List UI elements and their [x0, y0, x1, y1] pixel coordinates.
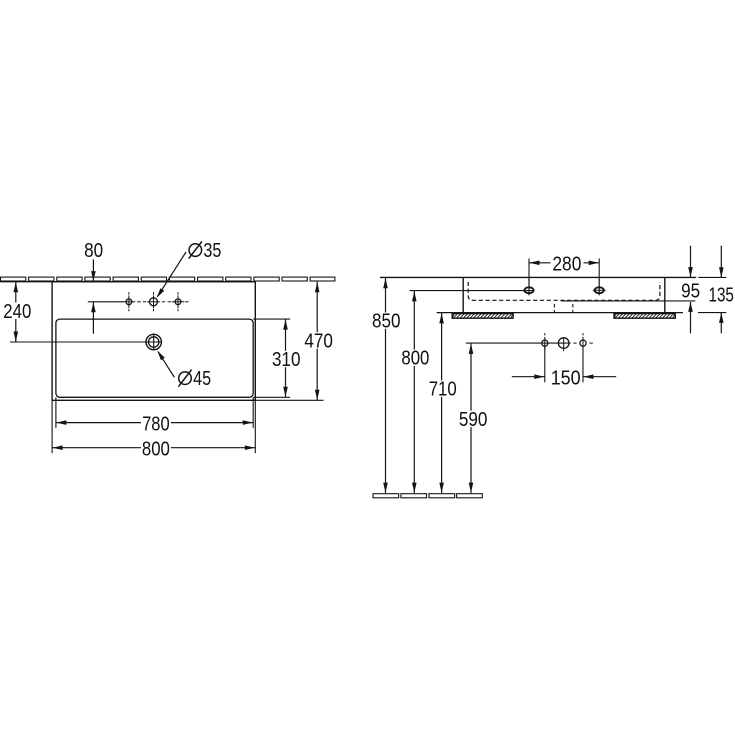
tap hole right [175, 299, 181, 305]
svg-text:800: 800 [142, 438, 170, 460]
dimension 470 (overall depth) [255, 399, 323, 401]
dimension 780 (inner bowl width) [55, 397, 57, 428]
hidden drain outline (dashed) [553, 304, 555, 312]
dimension 310 (inner bowl depth) [253, 318, 290, 320]
dimension 80 (wall to tap holes) [92, 259, 94, 281]
tap hole right (front view, 280 dim) [598, 277, 600, 295]
label Ø35 with leader to centre tap hole [158, 252, 186, 296]
svg-text:280: 280 [552, 254, 581, 276]
dimension 590 (fixing hole height) [470, 343, 472, 493]
dimension 800 (overall width) [51, 400, 53, 453]
tap hole left (front view, 280 dim) [528, 277, 530, 295]
dimension 280 (tap hole spacing) [528, 258, 530, 277]
svg-text:850: 850 [372, 311, 401, 333]
washbasin outer edge (plan view 800x470) [52, 282, 255, 401]
svg-text:310: 310 [272, 349, 301, 371]
dimension 95 (top to bowl bottom) [690, 246, 692, 277]
svg-text:800: 800 [401, 348, 429, 370]
fixing hole right [580, 340, 586, 346]
svg-text:95: 95 [681, 281, 700, 303]
wall tile band (plan view) [1, 277, 26, 281]
svg-text:710: 710 [429, 379, 457, 401]
fixing hole left [542, 340, 548, 346]
basin top surface line / extension (front view) [380, 276, 696, 278]
svg-text:780: 780 [142, 413, 170, 435]
top extension for 135 dim [698, 276, 726, 278]
dimension 240 (wall to drain centre) [15, 282, 17, 342]
svg-text:35: 35 [203, 240, 221, 262]
dimension 135 (top to underside) [720, 246, 722, 278]
95 extension line (bowl bottom level) [561, 300, 695, 302]
dimension 850 (top height) [385, 278, 387, 493]
drain centreline extension [10, 341, 162, 343]
drain hole Ø45 (plan view) [146, 334, 161, 349]
right mounting pad (hatched) [614, 314, 675, 319]
fixing hole centre [558, 338, 569, 349]
svg-text:80: 80 [84, 240, 103, 262]
label Ø45 with leader to drain [158, 352, 174, 377]
left mounting pad (hatched) [452, 314, 513, 319]
tap hole left [126, 299, 132, 305]
basin inner bowl edge (plan view 780x310) [56, 319, 253, 397]
svg-text:150: 150 [551, 368, 581, 390]
floor line band [373, 494, 399, 498]
svg-text:240: 240 [3, 301, 31, 323]
wall line (plan view) [0, 281, 256, 283]
dimension 150 (fixing hole spacing) [544, 347, 546, 383]
basin bottom line / 710 extension [437, 312, 683, 314]
basin right edge (front view) [664, 277, 666, 313]
svg-text:470: 470 [304, 330, 333, 352]
bottom extension for 135 dim [698, 312, 726, 314]
800 extension line (overflow level) [410, 290, 534, 292]
basin left edge (front view) [462, 277, 464, 313]
svg-text:135: 135 [708, 285, 734, 307]
dimension 800 (overflow height) [413, 291, 415, 493]
tap hole centreline dashes [137, 301, 141, 303]
fixing holes centreline [466, 342, 571, 344]
hidden inner bowl profile (dashed) [468, 282, 660, 301]
dimension 710 (underside height) [441, 313, 443, 493]
tap hole centreline extension [88, 301, 123, 303]
svg-text:590: 590 [459, 409, 488, 431]
tap hole centre Ø35 [150, 298, 158, 306]
svg-text:45: 45 [193, 368, 211, 390]
